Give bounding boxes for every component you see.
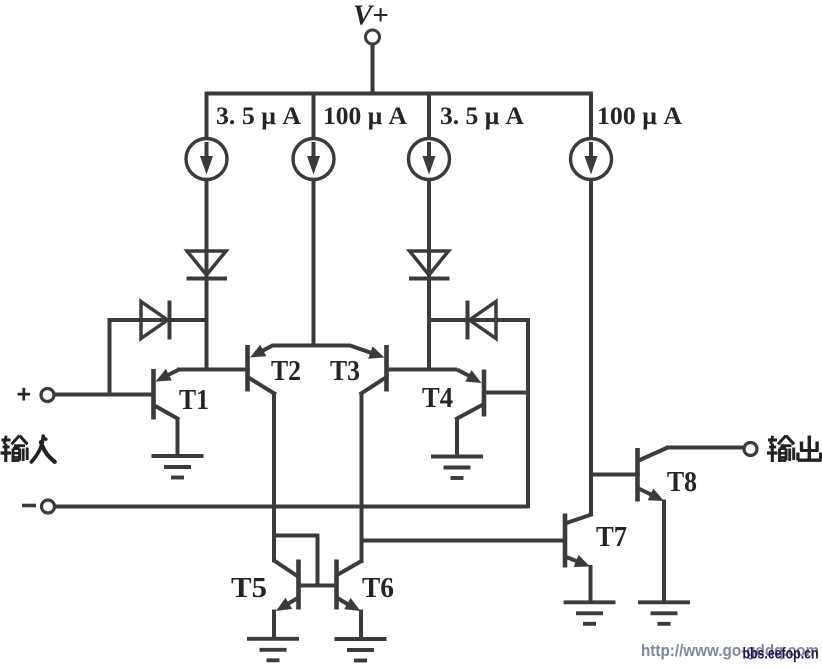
svg-text:+: +	[17, 381, 32, 409]
svg-text:T3: T3	[330, 356, 360, 387]
svg-text:T7: T7	[596, 521, 627, 553]
svg-text:100 μ A: 100 μ A	[323, 103, 407, 130]
svg-text:3. 5 μ A: 3. 5 μ A	[440, 103, 524, 130]
svg-text:V+: V+	[353, 0, 389, 32]
svg-text:T5: T5	[231, 572, 267, 604]
svg-text:T6: T6	[362, 572, 394, 604]
svg-text:T4: T4	[422, 383, 453, 414]
svg-text:100 μ A: 100 μ A	[597, 103, 682, 130]
svg-text:T1: T1	[179, 385, 209, 416]
svg-text:T8: T8	[667, 467, 697, 498]
svg-text:3. 5 μ A: 3. 5 μ A	[216, 103, 301, 130]
svg-text:T2: T2	[271, 356, 301, 387]
svg-text:bbs.eefop.cn: bbs.eefop.cn	[743, 646, 819, 663]
